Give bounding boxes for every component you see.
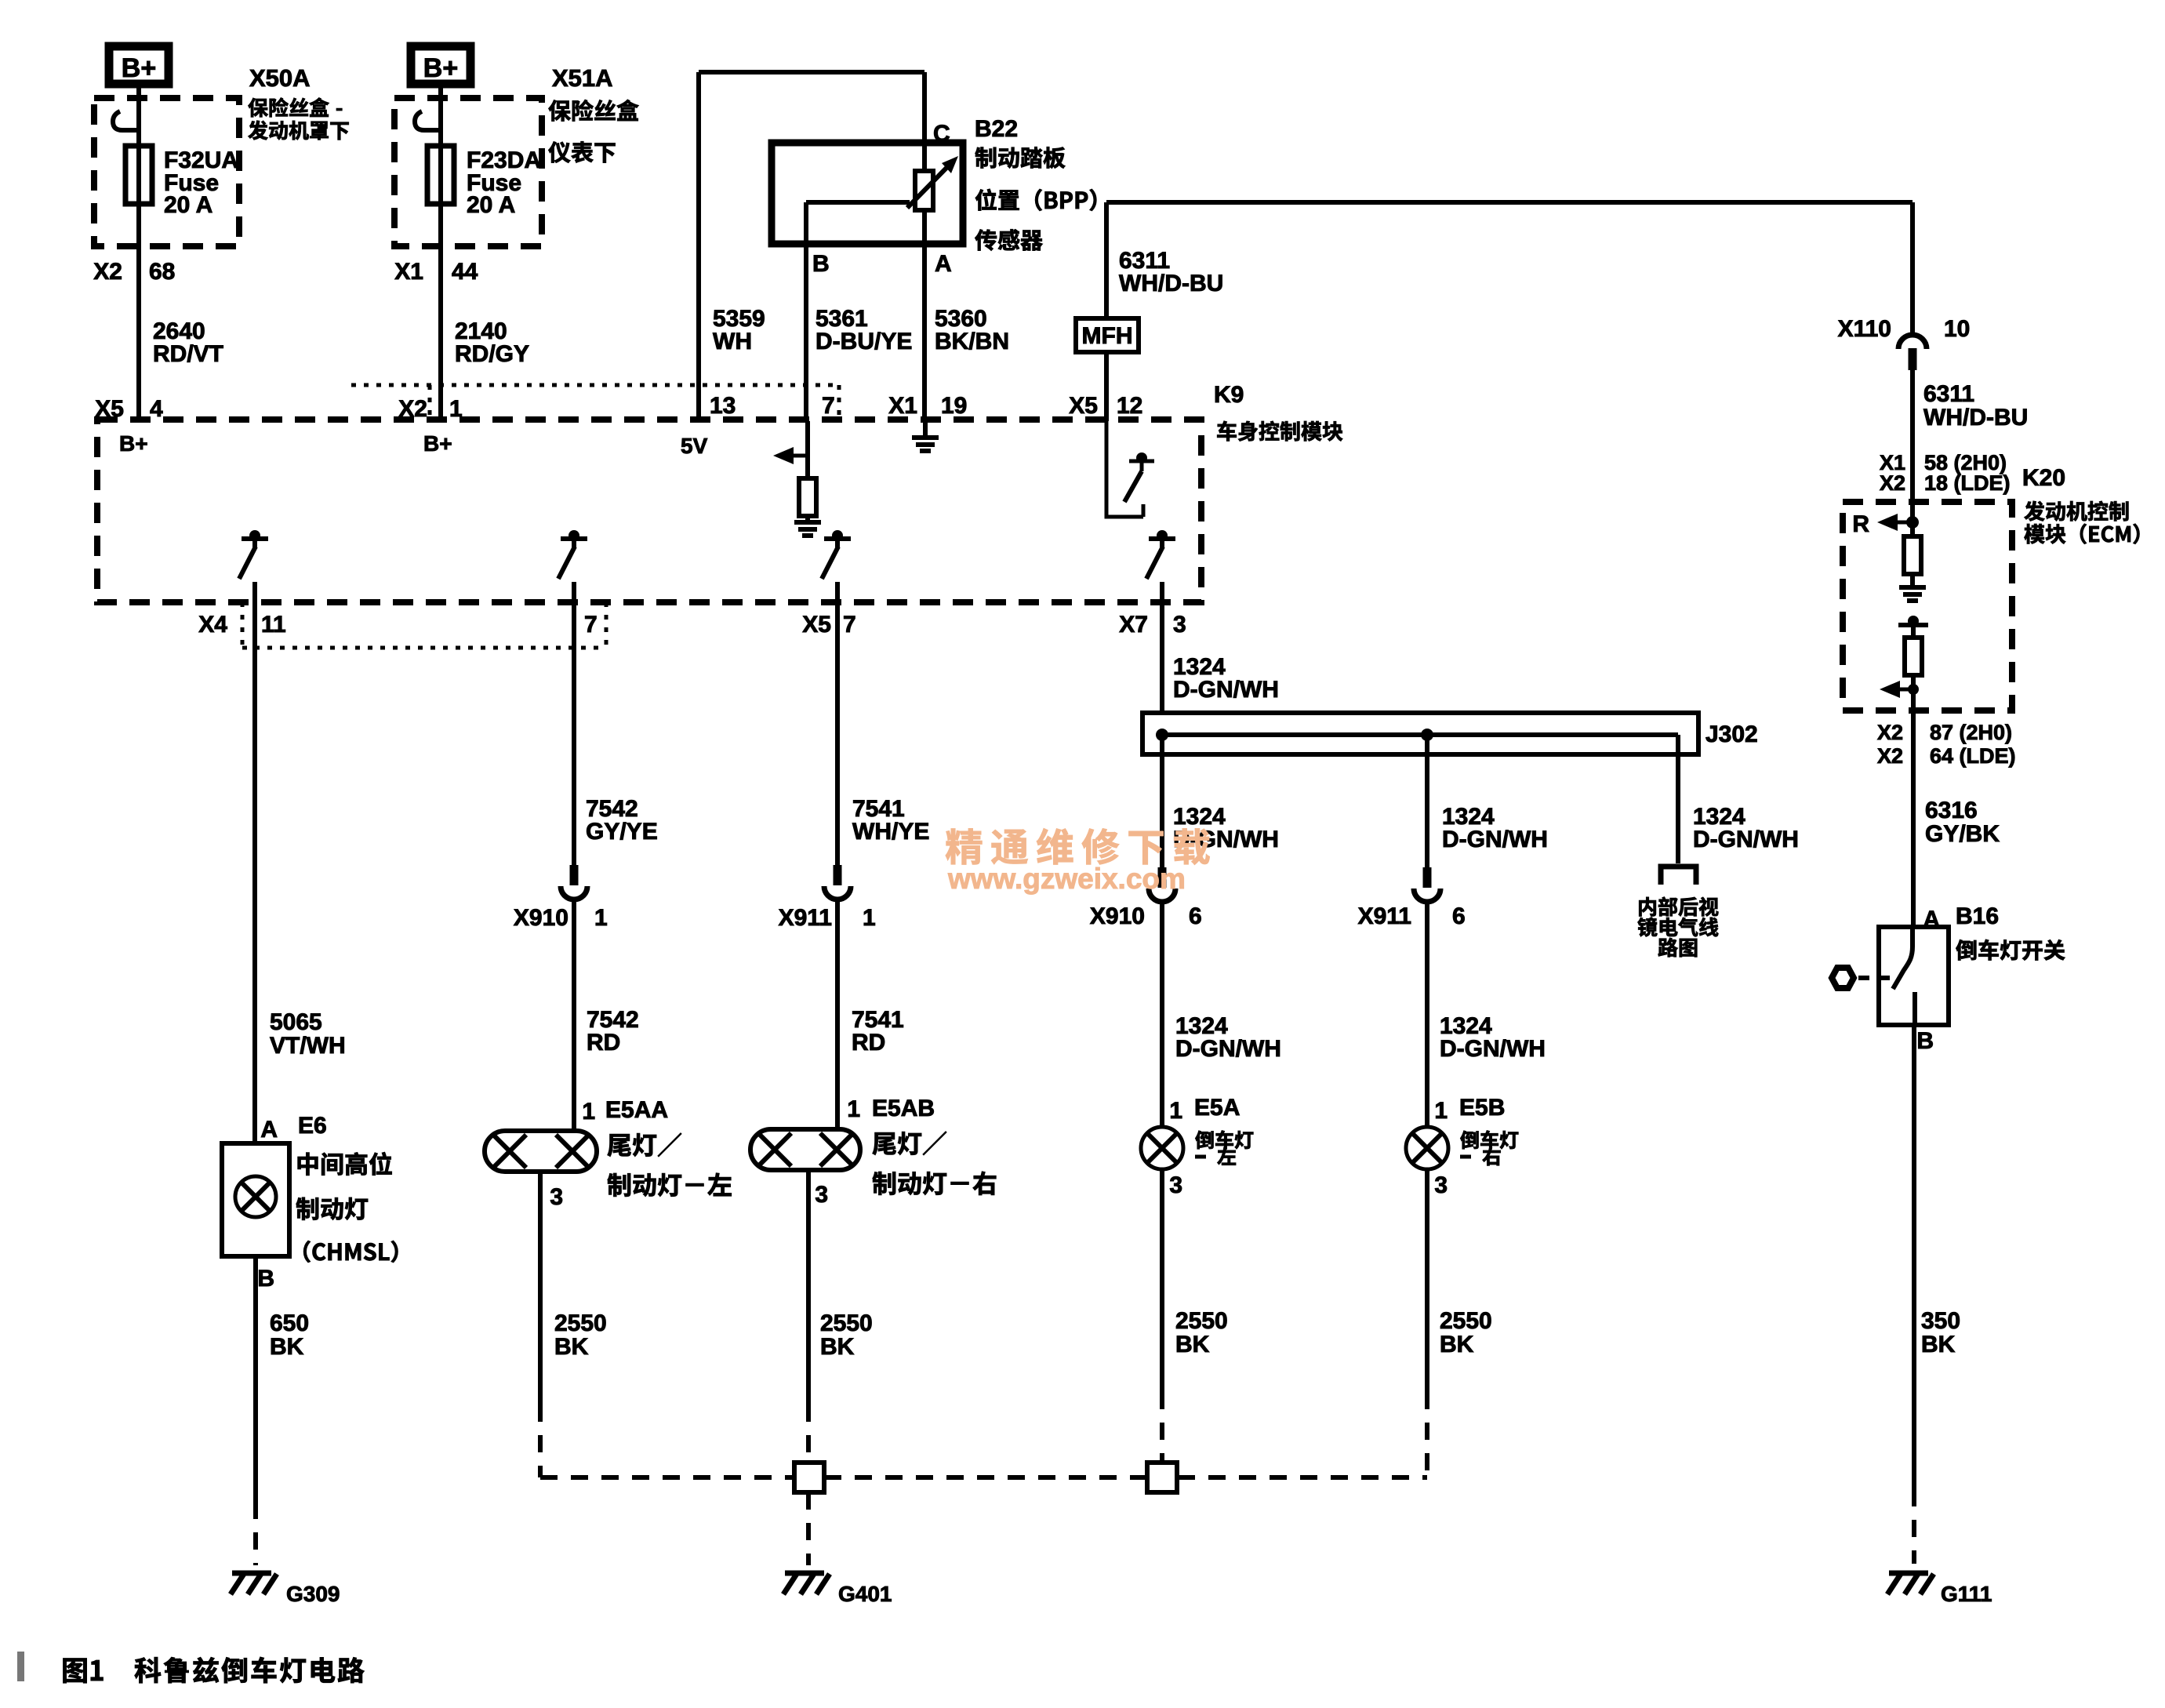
svg-text:GY/BK: GY/BK (1925, 821, 2000, 847)
svg-text:E5B: E5B (1459, 1095, 1505, 1121)
svg-text:7: 7 (584, 612, 598, 638)
svg-text:3: 3 (1169, 1172, 1182, 1198)
svg-text:X1: X1 (394, 259, 423, 285)
svg-text:X911: X911 (779, 905, 832, 931)
svg-text:X2: X2 (93, 259, 122, 285)
svg-text:13: 13 (710, 393, 736, 419)
svg-text:B+: B+ (423, 431, 452, 456)
svg-text:18 (LDE): 18 (LDE) (1924, 471, 2011, 495)
svg-text:4: 4 (150, 396, 163, 422)
svg-text:C: C (933, 121, 950, 147)
svg-text:WH/YE: WH/YE (852, 819, 929, 845)
svg-text:350: 350 (1921, 1308, 1960, 1334)
svg-text:D-GN/WH: D-GN/WH (1440, 1036, 1546, 1062)
svg-text:1: 1 (1169, 1098, 1182, 1124)
svg-text:5V: 5V (681, 434, 708, 458)
svg-text:3: 3 (815, 1182, 828, 1208)
svg-text:www.gzweix.com: www.gzweix.com (947, 863, 1186, 895)
svg-text:12: 12 (1117, 393, 1142, 419)
svg-text:D-BU/YE: D-BU/YE (816, 329, 912, 354)
svg-text:D-GN/WH: D-GN/WH (1175, 1036, 1281, 1062)
svg-text:A: A (260, 1117, 278, 1143)
svg-text:6316: 6316 (1925, 798, 1978, 823)
svg-text:2550: 2550 (554, 1310, 607, 1336)
svg-text:X4: X4 (198, 612, 227, 638)
svg-text:X2: X2 (1877, 744, 1903, 768)
svg-text:G401: G401 (838, 1582, 892, 1606)
svg-text:B+: B+ (423, 53, 458, 83)
svg-text:D-GN/WH: D-GN/WH (1442, 827, 1548, 852)
svg-text:1: 1 (594, 905, 608, 931)
svg-text:G111: G111 (1941, 1582, 1992, 1606)
svg-text:X2: X2 (1880, 471, 1905, 495)
svg-text:BK: BK (1440, 1332, 1474, 1357)
svg-text:1: 1 (863, 905, 876, 931)
svg-text:J302: J302 (1705, 721, 1758, 747)
svg-text:A: A (935, 251, 952, 277)
svg-text:1: 1 (582, 1099, 595, 1125)
svg-text:BK: BK (270, 1334, 304, 1360)
svg-text:10: 10 (1944, 316, 1970, 342)
svg-text:44: 44 (452, 259, 478, 285)
svg-text:3: 3 (1173, 612, 1186, 638)
svg-text:D-GN/WH: D-GN/WH (1693, 827, 1799, 852)
svg-text:7: 7 (822, 393, 835, 419)
svg-text:11: 11 (261, 612, 286, 638)
svg-text:E5AA: E5AA (605, 1097, 668, 1123)
svg-text:B: B (257, 1266, 274, 1292)
svg-text:B+: B+ (122, 53, 156, 83)
svg-text:VT/WH: VT/WH (270, 1033, 346, 1059)
svg-text:X910: X910 (1090, 903, 1145, 929)
svg-text:2550: 2550 (1175, 1308, 1228, 1334)
svg-text:X51A: X51A (552, 64, 613, 92)
svg-text:BK: BK (1921, 1332, 1956, 1357)
svg-text:GY/YE: GY/YE (586, 819, 658, 845)
svg-text:BK/BN: BK/BN (935, 329, 1009, 354)
svg-text:RD: RD (587, 1030, 620, 1056)
svg-text:19: 19 (941, 393, 967, 419)
svg-text:RD: RD (852, 1030, 885, 1056)
svg-text:B16: B16 (1956, 903, 1999, 929)
svg-text:3: 3 (550, 1184, 563, 1210)
svg-text:BK: BK (554, 1334, 589, 1360)
svg-text:B: B (1916, 1028, 1934, 1054)
svg-text:X1: X1 (888, 393, 917, 419)
svg-text:WH/D-BU: WH/D-BU (1923, 405, 2028, 431)
svg-text:6: 6 (1189, 903, 1202, 929)
svg-text:X911: X911 (1358, 903, 1411, 929)
svg-text:6: 6 (1452, 903, 1466, 929)
svg-text:X5: X5 (802, 612, 831, 638)
svg-text:1: 1 (847, 1096, 860, 1122)
svg-text:64 (LDE): 64 (LDE) (1930, 744, 2016, 768)
svg-text:E6: E6 (298, 1113, 327, 1139)
svg-text:B: B (812, 251, 830, 277)
svg-text:2550: 2550 (1440, 1308, 1492, 1334)
svg-text:E5AB: E5AB (872, 1096, 935, 1121)
svg-text:MFH: MFH (1082, 323, 1133, 349)
svg-text:RD/GY: RD/GY (455, 341, 529, 367)
svg-text:X7: X7 (1119, 612, 1148, 638)
svg-text:BK: BK (1175, 1332, 1210, 1357)
svg-text:68: 68 (149, 259, 175, 285)
svg-text:3: 3 (1434, 1172, 1448, 1198)
svg-text:E5A: E5A (1194, 1095, 1240, 1121)
svg-text:B+: B+ (119, 431, 148, 456)
svg-text:K20: K20 (2022, 465, 2065, 491)
svg-text:20 A: 20 A (467, 192, 515, 218)
svg-text:G309: G309 (286, 1582, 340, 1606)
svg-text:RD/VT: RD/VT (153, 341, 223, 367)
svg-text:X110: X110 (1838, 316, 1891, 342)
svg-text:BK: BK (820, 1334, 855, 1360)
svg-text:WH/D-BU: WH/D-BU (1119, 271, 1223, 296)
svg-text:7: 7 (843, 612, 856, 638)
svg-text:2550: 2550 (820, 1310, 873, 1336)
svg-text:X5: X5 (1069, 393, 1098, 419)
svg-text:87 (2H0): 87 (2H0) (1930, 721, 2012, 744)
svg-text:650: 650 (270, 1310, 309, 1336)
svg-text:5065: 5065 (270, 1009, 322, 1035)
svg-text:K9: K9 (1214, 382, 1244, 408)
svg-text:X50A: X50A (249, 64, 311, 92)
svg-text:R: R (1852, 511, 1869, 537)
svg-text:B22: B22 (975, 116, 1018, 142)
svg-text:WH: WH (713, 329, 752, 354)
svg-text:6311: 6311 (1923, 381, 1974, 407)
svg-text:D-GN/WH: D-GN/WH (1173, 677, 1279, 703)
svg-text:X910: X910 (514, 905, 568, 931)
svg-text:20 A: 20 A (164, 192, 213, 218)
svg-text:1: 1 (1434, 1098, 1448, 1124)
svg-text:X2: X2 (1877, 721, 1903, 744)
